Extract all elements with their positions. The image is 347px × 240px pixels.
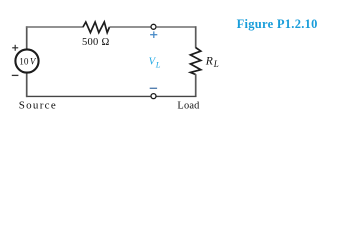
svg-text:Source: Source: [19, 100, 57, 112]
resistor RL: [190, 48, 200, 75]
svg-text:L: L: [155, 60, 161, 70]
svg-text:Figure P1.2.10: Figure P1.2.10: [237, 17, 318, 31]
wire right vertical upper: [195, 26, 197, 48]
polarity minus at source: [12, 74, 19, 76]
wire left vertical upper (source to top rail): [26, 26, 28, 49]
wire bottom rail right segment: [156, 95, 196, 97]
wire top rail left segment: [26, 26, 84, 28]
wire top rail right segment: [156, 26, 196, 28]
svg-text:500 Ω: 500 Ω: [82, 37, 110, 48]
polarity plus at source: [12, 45, 18, 51]
svg-text:Load: Load: [177, 101, 200, 112]
wire right vertical lower: [195, 74, 197, 97]
polarity minus at load terminal: [150, 87, 157, 89]
svg-text:R: R: [205, 55, 213, 68]
wire bottom rail left segment: [26, 95, 151, 97]
wire resistor to top terminal: [110, 26, 151, 28]
svg-text:L: L: [213, 59, 219, 69]
wire left vertical lower: [26, 72, 28, 97]
voltage source V 10V: [15, 49, 38, 72]
svg-text:V: V: [30, 56, 37, 66]
node bottom terminal: [151, 94, 156, 99]
resistor R 500 ohm: [83, 22, 110, 33]
svg-text:10: 10: [19, 56, 29, 66]
polarity plus at load terminal: [150, 31, 157, 38]
node top terminal: [151, 24, 156, 29]
